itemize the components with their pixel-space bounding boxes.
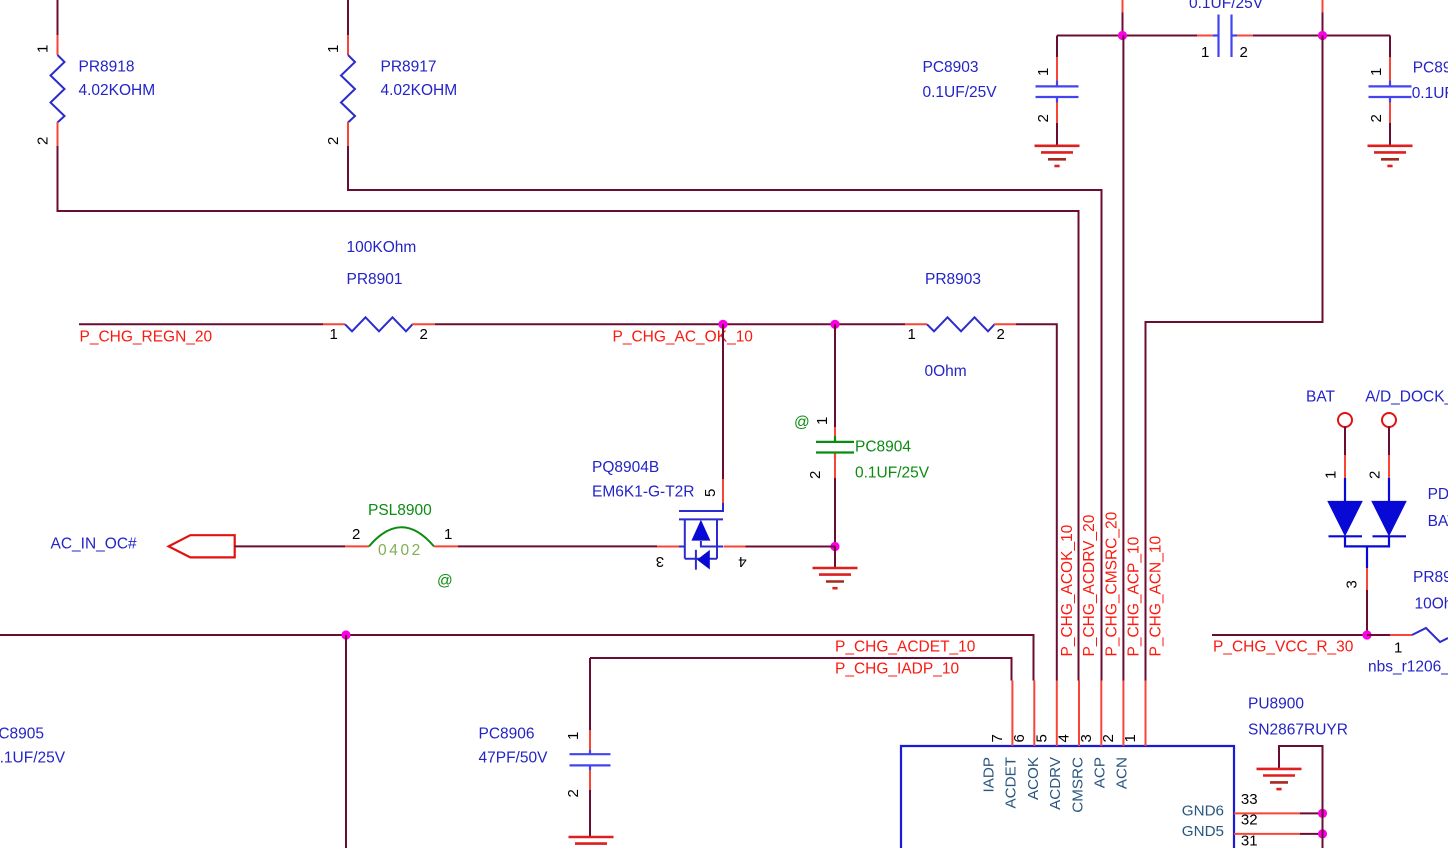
svg-text:PR8918: PR8918 — [79, 59, 135, 76]
svg-text:PR8901: PR8901 — [347, 271, 403, 288]
IC PU8900 SN2867RUYR body — [901, 746, 1234, 848]
svg-text:PC8905: PC8905 — [0, 726, 44, 743]
wire — [1122, 13, 1124, 36]
svg-text:PC8903: PC8903 — [923, 59, 979, 76]
svg-text:PSL8900: PSL8900 — [368, 502, 432, 519]
svg-text:ACDRV: ACDRV — [1047, 756, 1064, 810]
pin 3 (CMSRC) PU8900 — [1100, 681, 1102, 747]
svg-text:ACDET: ACDET — [1002, 757, 1019, 808]
wire down from junction — [345, 635, 347, 848]
svg-text:2: 2 — [325, 137, 342, 145]
svg-text:PQ8904B: PQ8904B — [592, 459, 659, 476]
svg-text:2: 2 — [352, 526, 360, 543]
svg-text:@: @ — [437, 573, 453, 590]
wire P_CHG_AC_OK_10 — [435, 323, 905, 325]
wire AC_OK to PC8904 — [834, 324, 836, 427]
svg-text:P_CHG_IADP_10: P_CHG_IADP_10 — [835, 660, 959, 677]
resistor PR8901 100KOhm — [323, 317, 435, 331]
transistor PQ8904B EM6K1-G-T2R — [657, 479, 746, 570]
wire — [1389, 36, 1391, 58]
wire PSL8900 to Q pin3 — [458, 545, 657, 547]
svg-text:4: 4 — [738, 553, 746, 570]
pin 1 stub PC8906 — [589, 730, 591, 754]
wire PR8917 to pin3 CMSRC — [348, 146, 1102, 681]
svg-text:P_CHG_ACN_10: P_CHG_ACN_10 — [1148, 536, 1165, 657]
svg-text:31: 31 — [1241, 833, 1258, 848]
wire — [1056, 123, 1058, 146]
svg-text:2: 2 — [420, 326, 428, 343]
wire port to PSL8900 — [235, 545, 345, 547]
svg-text:A/D_DOCK_CONN: A/D_DOCK_CONN — [1365, 389, 1448, 406]
svg-text:6: 6 — [1011, 734, 1028, 742]
pin 33 stub — [1234, 812, 1300, 814]
svg-text:1: 1 — [1323, 471, 1340, 479]
svg-text:0.1UF/25V: 0.1UF/25V — [1189, 0, 1264, 12]
junction — [1318, 31, 1327, 40]
wire to ground — [834, 547, 836, 569]
svg-text:PC8906: PC8906 — [479, 726, 535, 743]
svg-text:5: 5 — [1033, 734, 1050, 742]
capacitor PC8903 plates — [1036, 81, 1079, 103]
node BAT circle — [1338, 413, 1352, 427]
wire to pin5 ACOK — [1016, 324, 1057, 680]
wire P_CHG_REGN_20 — [79, 323, 323, 325]
svg-text:PR8917: PR8917 — [381, 59, 437, 76]
svg-text:EM6K1-G-T2R: EM6K1-G-T2R — [592, 484, 695, 501]
svg-text:1: 1 — [908, 326, 916, 343]
pin 1 stub PC8901 — [1389, 57, 1391, 81]
pin 1 stub PC8904 — [834, 427, 836, 441]
wire — [1300, 812, 1323, 814]
svg-text:1: 1 — [1035, 68, 1052, 76]
junction — [1362, 630, 1371, 639]
svg-text:1: 1 — [1122, 734, 1139, 742]
svg-text:ACOK: ACOK — [1025, 757, 1042, 800]
pin 5 (ACOK) PU8900 — [1056, 681, 1058, 747]
wire P_CHG_ACDET_10 — [0, 635, 1034, 681]
pin 7 (IADP) PU8900 — [1011, 681, 1013, 747]
pin 1 (ACN) PU8900 — [1145, 681, 1147, 747]
svg-text:IADP: IADP — [980, 757, 997, 792]
pin stub top at x=1122 — [1122, 0, 1124, 13]
svg-text:@: @ — [794, 414, 810, 431]
pin 6 (ACDET) PU8900 — [1033, 681, 1035, 747]
svg-text:PU8900: PU8900 — [1248, 696, 1304, 713]
svg-text:100KOhm: 100KOhm — [347, 239, 417, 256]
svg-text:1: 1 — [1201, 44, 1209, 61]
junction — [718, 320, 727, 329]
pin 2 stub PC8904 — [834, 454, 836, 479]
wire — [1300, 833, 1323, 835]
svg-text:1: 1 — [35, 45, 52, 53]
pin 4 (ACDRV) PU8900 — [1078, 681, 1080, 747]
svg-text:3: 3 — [656, 553, 664, 570]
svg-text:2: 2 — [1368, 114, 1385, 122]
svg-text:CMSRC: CMSRC — [1069, 757, 1086, 813]
svg-text:PC8901: PC8901 — [1413, 60, 1448, 77]
svg-text:nbs_r1206_: nbs_r1206_ — [1368, 659, 1448, 676]
node A/D_DOCK circle — [1382, 413, 1396, 427]
port AC_IN_OC# — [169, 535, 235, 557]
svg-text:P_CHG_REGN_20: P_CHG_REGN_20 — [80, 328, 213, 345]
inductor/link PSL8900 — [345, 527, 458, 546]
svg-text:2: 2 — [35, 137, 52, 145]
svg-text:1: 1 — [1394, 640, 1402, 657]
capacitor PC8902 0.1UF/25V (horizontal, top) — [1197, 15, 1253, 58]
svg-text:7: 7 — [989, 734, 1006, 742]
junction — [1318, 829, 1327, 838]
svg-text:BAT54C: BAT54C — [1428, 513, 1448, 530]
junction — [830, 542, 839, 551]
svg-text:GND5: GND5 — [1182, 823, 1224, 840]
svg-text:32: 32 — [1241, 812, 1258, 829]
wire ACP up to top net — [1122, 36, 1124, 681]
svg-text:2: 2 — [807, 471, 824, 479]
ground symbol PU8900 — [1257, 769, 1302, 789]
svg-text:1: 1 — [330, 326, 338, 343]
pin stub top at x=1322 — [1322, 0, 1324, 13]
wire PR8918 to pin4 ACDRV — [58, 146, 1079, 681]
svg-text:2: 2 — [997, 326, 1005, 343]
wire PC8904 to gnd node — [834, 478, 836, 547]
resistor PR8918 — [51, 0, 65, 146]
junction — [1118, 31, 1127, 40]
svg-text:0.1UF/25V: 0.1UF/25V — [0, 750, 66, 767]
svg-text:AC_IN_OC#: AC_IN_OC# — [51, 536, 138, 553]
svg-text:0.1UF/25V: 0.1UF/25V — [855, 464, 930, 481]
wire — [1056, 36, 1058, 58]
svg-text:3: 3 — [1078, 734, 1095, 742]
wire — [1389, 123, 1391, 146]
svg-text:GND6: GND6 — [1182, 803, 1224, 820]
wire — [1322, 13, 1324, 36]
svg-text:2: 2 — [1035, 114, 1052, 122]
junction — [830, 320, 839, 329]
svg-text:PR8902: PR8902 — [1413, 569, 1448, 586]
svg-text:P_CHG_ACDET_10: P_CHG_ACDET_10 — [835, 638, 976, 655]
svg-text:4.02KOHM: 4.02KOHM — [381, 82, 458, 99]
resistor PR8902 10Ohm (clipped right) — [1390, 634, 1412, 636]
svg-text:P_CHG_VCC_R_30: P_CHG_VCC_R_30 — [1213, 639, 1354, 656]
svg-text:0.1UF/25V: 0.1UF/25V — [1412, 85, 1448, 102]
svg-text:P_CHG_ACP_10: P_CHG_ACP_10 — [1125, 536, 1142, 656]
pin 1 stub PC8903 — [1056, 57, 1058, 81]
svg-text:2: 2 — [565, 789, 582, 797]
wire PC8906 top — [589, 658, 591, 730]
capacitor PC8901 plates — [1369, 81, 1412, 103]
svg-text:P_CHG_ACOK_10: P_CHG_ACOK_10 — [1059, 524, 1076, 656]
wire ACN up to top net — [1146, 36, 1323, 681]
junction — [341, 630, 350, 639]
ground at PC8906 — [569, 837, 614, 848]
svg-text:PR8903: PR8903 — [925, 271, 981, 288]
pin 2 stub PC8906 — [589, 770, 591, 790]
wire diode to VCC node — [1366, 590, 1368, 635]
svg-text:PC8904: PC8904 — [855, 439, 911, 456]
wire P_CHG_IADP_10 — [590, 658, 1012, 681]
pin 2 stub PC8901 — [1389, 103, 1391, 124]
wire DOCK to diode — [1388, 427, 1390, 456]
wire BAT to diode — [1344, 427, 1346, 456]
svg-text:PD8900: PD8900 — [1428, 486, 1448, 503]
wire PU8900 ground net — [1279, 746, 1323, 848]
svg-text:1: 1 — [325, 45, 342, 53]
svg-text:2: 2 — [1100, 734, 1117, 742]
svg-text:0Ohm: 0Ohm — [925, 363, 967, 380]
wire AC_OK to Q gate — [722, 324, 724, 479]
svg-text:SN2867RUYR: SN2867RUYR — [1248, 722, 1348, 739]
pin 2 (ACP) PU8900 — [1122, 681, 1124, 747]
resistor PR8917 — [341, 0, 355, 146]
svg-text:P_CHG_CMSRC_20: P_CHG_CMSRC_20 — [1103, 511, 1120, 656]
pin 2 stub PC8903 — [1056, 103, 1058, 124]
svg-text:10Ohm: 10Ohm — [1415, 596, 1448, 613]
wire — [1367, 634, 1390, 636]
svg-text:ACP: ACP — [1091, 757, 1108, 788]
svg-text:4: 4 — [1056, 734, 1073, 742]
wire PC8906 to gnd — [589, 790, 591, 837]
wire Q pin4 to gnd node — [746, 546, 836, 548]
wire top net right — [1253, 35, 1390, 37]
wire top net left — [1057, 35, 1197, 37]
svg-text:2: 2 — [1367, 471, 1384, 479]
svg-text:P_CHG_ACDRV_20: P_CHG_ACDRV_20 — [1081, 514, 1098, 656]
svg-text:1: 1 — [1368, 68, 1385, 76]
svg-text:ACN: ACN — [1114, 757, 1131, 789]
wire P_CHG_VCC_R_30 — [1212, 634, 1367, 636]
svg-text:0402: 0402 — [378, 542, 423, 559]
svg-text:5: 5 — [702, 489, 719, 497]
junction — [1318, 809, 1327, 818]
svg-text:47PF/50V: 47PF/50V — [479, 750, 549, 767]
ground at PC8904 — [813, 568, 858, 588]
svg-text:4.02KOHM: 4.02KOHM — [79, 82, 156, 99]
resistor PR8903 0Ohm — [905, 317, 1016, 331]
ground at PC8903 — [1035, 146, 1080, 166]
svg-text:1: 1 — [565, 732, 582, 740]
diode PD8900 BAT54C — [1329, 427, 1407, 591]
ground at PC8901 — [1368, 146, 1413, 166]
svg-text:3: 3 — [1344, 580, 1361, 588]
svg-text:1: 1 — [444, 526, 452, 543]
capacitor PC8904 plates — [816, 436, 854, 458]
svg-text:1: 1 — [814, 417, 831, 425]
pin 32 stub — [1234, 833, 1300, 835]
svg-text:33: 33 — [1241, 791, 1258, 808]
svg-text:0.1UF/25V: 0.1UF/25V — [923, 84, 998, 101]
svg-text:P_CHG_AC_OK_10: P_CHG_AC_OK_10 — [613, 328, 754, 345]
svg-text:2: 2 — [1240, 44, 1248, 61]
svg-text:BAT: BAT — [1306, 389, 1336, 406]
